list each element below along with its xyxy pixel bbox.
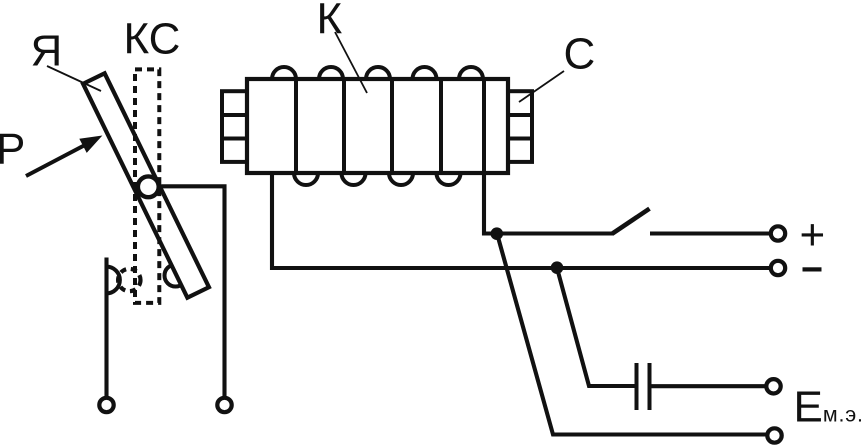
wire left support [104, 258, 108, 398]
node on minus bus [551, 261, 564, 274]
pointer line for К [335, 32, 367, 93]
coil lead right, to plus bus [484, 173, 613, 234]
wire from pivot to right support [158, 186, 225, 397]
svg-text:КС: КС [124, 15, 181, 64]
label minus [803, 267, 822, 271]
armature Я (tilted bar) [83, 73, 209, 297]
svg-text:К: К [317, 0, 343, 44]
fixed contact (semicircle on left support) [107, 267, 120, 294]
terminal minus [771, 261, 785, 275]
terminal bottom (E source minus) [767, 428, 781, 442]
winding top loops [272, 67, 483, 79]
coil K body [247, 79, 508, 173]
pointer line for С [519, 71, 564, 102]
wire capacitor to E terminal [651, 384, 766, 388]
wire from minus node to capacitor [557, 268, 635, 386]
node on plus bus [491, 227, 504, 240]
capacitor [637, 363, 650, 410]
svg-text:Р: Р [0, 124, 25, 173]
contact system КС (dashed frame) [135, 69, 159, 303]
contact on armature (moving contact circle) [165, 265, 187, 287]
dashed contact circle (released position) [118, 269, 140, 291]
pointer line for Я [47, 66, 101, 91]
svg-text:Ем.э.: Ем.э. [794, 383, 862, 432]
wire from plus node to bottom terminal [497, 234, 766, 435]
arrow Р [26, 136, 102, 177]
svg-text:Я: Я [31, 27, 63, 76]
winding turns (vertical wires inside coil) [296, 79, 484, 173]
terminal (bottom left of contact group) [99, 398, 113, 412]
terminal plus [771, 226, 785, 240]
coil lead left, to minus bus [272, 173, 771, 268]
core C left end (3 cells) [222, 91, 247, 162]
svg-text:+: + [800, 211, 826, 260]
svg-text:С: С [564, 30, 596, 79]
terminal E m.e. [766, 379, 780, 393]
core C right end (3 cells) [508, 91, 532, 162]
pivot (axis) circle on armature [138, 176, 159, 197]
winding bottom loops [294, 173, 461, 185]
switch blade [612, 209, 650, 234]
terminal (bottom right of contact group) [217, 398, 231, 412]
switch fixed side wire [650, 231, 771, 235]
